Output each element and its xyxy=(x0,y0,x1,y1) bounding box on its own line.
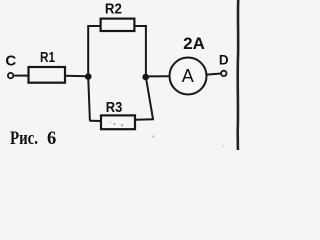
svg-text:Рис.: Рис. xyxy=(10,129,38,149)
terminal D xyxy=(219,53,229,76)
wire right branch vertical upper xyxy=(145,25,147,74)
svg-text:R3: R3 xyxy=(106,99,123,116)
wire right branch vertical lower xyxy=(146,79,153,120)
svg-text:R1: R1 xyxy=(40,49,55,66)
ammeter U1 label 2A xyxy=(183,34,205,53)
caption Рис. 6 xyxy=(10,129,56,149)
terminal C xyxy=(5,52,16,78)
wire top branch left xyxy=(87,25,101,27)
node left junction xyxy=(85,73,92,80)
wire ammeter to terminal D xyxy=(207,74,221,75)
wire right node to ammeter xyxy=(146,75,170,77)
svg-text:6: 6 xyxy=(47,129,56,149)
wire bottom branch right xyxy=(135,118,154,121)
wire R1 to left node xyxy=(65,75,88,77)
node right junction xyxy=(142,74,149,81)
svg-text:R2: R2 xyxy=(105,1,122,18)
ammeter U1 xyxy=(170,58,207,95)
svg-text:2A: 2A xyxy=(183,34,205,53)
wire C to R1 xyxy=(14,75,29,77)
resistor R1 xyxy=(29,49,66,83)
svg-text:A: A xyxy=(182,66,194,86)
wire left branch vertical xyxy=(88,26,90,121)
resistor R3 xyxy=(101,99,135,129)
svg-text:D: D xyxy=(219,53,229,68)
svg-text:C: C xyxy=(5,52,16,69)
wire top branch right xyxy=(134,25,146,27)
wire bottom branch left xyxy=(90,120,102,122)
resistor R2 xyxy=(101,1,135,31)
